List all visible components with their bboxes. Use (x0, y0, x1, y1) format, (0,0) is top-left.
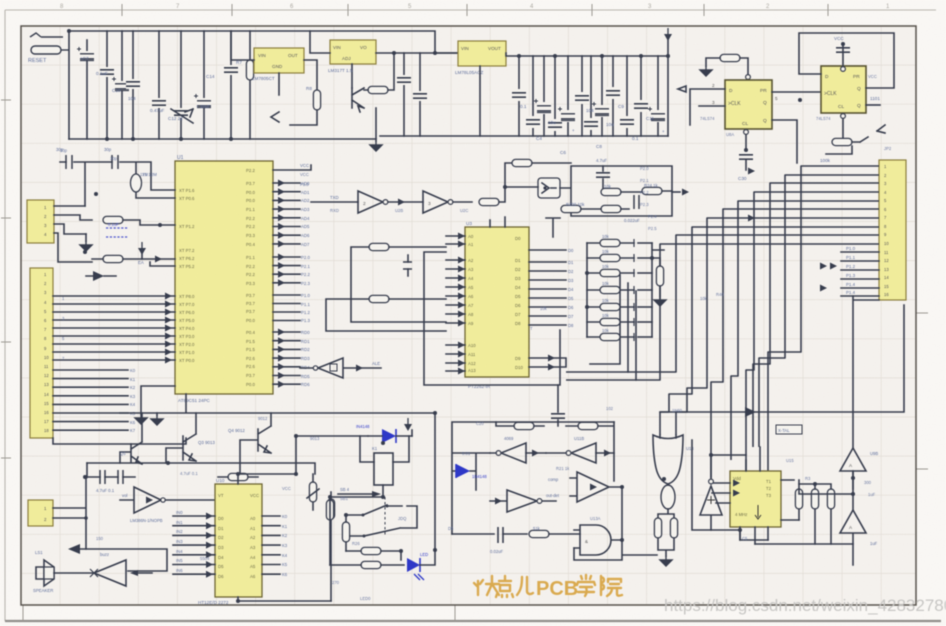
ground bottom right (660, 556, 672, 566)
wire U9 bottom stub (842, 119, 844, 139)
wire U3 left rail (424, 252, 560, 385)
resistor R53 vertical (827, 489, 834, 509)
capacitor C29 (626, 56, 628, 136)
wire vertical to amp top (853, 296, 879, 448)
wire A2 top link (852, 471, 854, 510)
ground R4 (700, 66, 712, 76)
wire connector lower stubs (841, 252, 879, 296)
arrow bus stub d (820, 285, 827, 292)
decoder U10 bottom left (215, 484, 262, 597)
connector J3 (28, 500, 53, 526)
ground ladder (654, 296, 666, 306)
inverter U11A (501, 443, 526, 463)
resistor R23 ladder (587, 289, 634, 291)
label PCB academy vector glyphs (474, 575, 622, 597)
wire and gate loop (574, 487, 657, 560)
led D2 blue (407, 558, 420, 572)
node bubble U9 PR (841, 67, 846, 72)
flip-flop U8 74LS74 (725, 80, 772, 129)
wire bus staircase (566, 166, 879, 520)
wire U10 bottom rail (238, 597, 331, 601)
capacitor C22 (543, 56, 545, 136)
arrow J2 rows (165, 293, 172, 300)
wire EA stub (150, 262, 175, 266)
wire under R50 R54 (658, 538, 674, 556)
capacitor C5 (158, 31, 160, 139)
resistor R14 (601, 188, 621, 195)
wire RC cluster frame (560, 166, 672, 216)
arrow SB stroke (338, 493, 372, 495)
wire scan noise overlay (0, 0, 1, 1)
resistor R17 (561, 205, 581, 212)
resistor R18 left of U3 (369, 243, 389, 250)
resistor R26 ladder (587, 336, 634, 338)
node flag above U3 (490, 217, 505, 227)
transistor Q3 (166, 413, 196, 463)
crystal X2 oval (661, 485, 675, 509)
node VCC flag top right of bank (664, 28, 672, 41)
arrow U10 left pins (206, 513, 213, 520)
resistor R5 under U9 (832, 138, 852, 145)
wire U10 top stub (238, 474, 296, 484)
arrow U1 right pins group2 (278, 254, 285, 261)
wire J1 stubs (54, 206, 92, 262)
capacitor C25 (581, 56, 583, 136)
inverter U2C (423, 191, 448, 213)
ground power section (375, 108, 377, 141)
arrow bus stub c (820, 263, 827, 270)
capacitor C11 (419, 53, 421, 136)
node bubble U8 PR (746, 75, 751, 80)
resistor R50 vertical (654, 518, 661, 538)
capacitor C8 (230, 31, 232, 139)
regulator U7 78L05 (458, 41, 506, 66)
capacitor C20 (518, 56, 520, 136)
capacitor C30 under U8 (739, 155, 753, 159)
wire U8 clear stub (745, 135, 747, 150)
transistor Q4 (240, 413, 271, 474)
label U1 right group1 (301, 181, 310, 247)
mcu U1 AT89C51 (175, 161, 273, 394)
capacitor C210 (640, 56, 642, 136)
resistor R12 (479, 198, 499, 205)
wire U8 to U9 (772, 91, 821, 93)
amplifier A2 up (840, 510, 866, 565)
resistor R2 (313, 90, 320, 110)
wire J2 to U1 rows (53, 296, 175, 360)
wire bus lower jogs (590, 275, 636, 380)
label texture values (60, 74, 892, 601)
wire osc bottom rail (452, 533, 494, 535)
inverter U11C (490, 490, 556, 512)
switch S1 RESET (30, 33, 69, 54)
connector J1 left (27, 200, 54, 243)
wire A1 to R51 (799, 489, 853, 494)
wire audio mid rail (87, 463, 315, 474)
opamp U12 (570, 472, 622, 502)
label cap bank (520, 104, 665, 155)
resistor R36 (361, 561, 381, 568)
transistor Q5 (120, 413, 142, 464)
capacitor C9 trimmer (171, 109, 193, 123)
wire U1 vcc stub (273, 165, 311, 170)
wire U9 output stub (866, 104, 880, 106)
label connector lower stubs (846, 246, 856, 295)
capacitor C19 (634, 195, 639, 209)
resistor R52 vertical (811, 489, 818, 509)
resistor R13 top (512, 159, 532, 166)
resistor R1 (249, 31, 251, 139)
resistor R30 vertical (656, 266, 663, 286)
resistor R37 vertical (326, 500, 333, 520)
ground J1 area (85, 234, 87, 241)
capacitor C32 pair (100, 470, 123, 484)
capacitor C23 (554, 56, 556, 136)
wire right rail cap bank (667, 56, 669, 136)
potentiometer R32 (309, 482, 316, 502)
wire audio top rail (120, 413, 435, 550)
switch SW2 (345, 506, 417, 536)
label U10 left stubs (176, 510, 183, 573)
resistor R16 (642, 187, 662, 194)
capacitor C40 stub (557, 385, 559, 426)
arrow RC out (672, 191, 680, 193)
label U3 right stubs (568, 248, 574, 328)
arrow U1 right pins group1 (278, 180, 285, 187)
capacitor C10 (403, 53, 405, 136)
wire osc frame (452, 422, 614, 534)
connector J2 left tall (30, 268, 53, 438)
label J2 lower stubs (130, 368, 136, 433)
node junction dots (67, 29, 855, 603)
resistor R15 (601, 205, 621, 212)
wire J3 stubs (53, 477, 86, 549)
resistor R24 ladder (587, 306, 634, 308)
wire U8 q2 path (772, 120, 797, 163)
node vcc tee above U3 (546, 218, 560, 237)
resistor R41 top (578, 422, 598, 429)
inverter U16 up (700, 455, 746, 530)
capacitor C27 (601, 56, 603, 136)
arrow bus stub a (748, 168, 755, 175)
resistor R3 (368, 86, 388, 93)
resistor R51 vertical (795, 489, 802, 509)
label ladder (602, 234, 610, 333)
amplifier A1 up (840, 448, 866, 489)
node bubble U9 CL (841, 114, 846, 119)
capacitor C26 (590, 56, 592, 136)
wire page bottom edge (5, 620, 941, 622)
regulator U6 LM317 (330, 40, 376, 64)
resistor R22 ladder (587, 272, 634, 274)
opamp U4A (120, 487, 215, 513)
capacitor C17 blue (106, 228, 128, 237)
node flag relay (404, 418, 412, 431)
resistor R31 (228, 473, 248, 480)
node bubble U8 CL (744, 130, 749, 135)
ground J2 (53, 438, 186, 444)
node flag ic4 top (660, 305, 904, 412)
label U1 right groups (301, 255, 310, 387)
arrow RST in (155, 256, 162, 263)
and gate U13 (574, 525, 622, 555)
or gate U14 (653, 435, 683, 484)
wire ladder right rail (652, 243, 664, 337)
resistor R20 ladder (587, 242, 634, 244)
node antenna flag right (877, 125, 885, 133)
crystal Y1 cluster (60, 162, 175, 206)
capacitor C3 (121, 31, 123, 139)
resistor R40 top (514, 422, 534, 429)
arrow U1 right pins group4 (278, 329, 285, 336)
capacitor C18 top (596, 173, 610, 177)
wire top rail (69, 31, 458, 139)
wire mid rail (394, 52, 458, 54)
ic U15 4069 bottom right (730, 471, 781, 527)
wire U3 right stubs (529, 250, 566, 325)
wire relay branch (296, 436, 368, 474)
wire U1 right pin stubs group1 (273, 183, 300, 244)
ground audio rail (156, 413, 158, 415)
speaker LS1 (36, 560, 54, 586)
diode D3 blue (456, 464, 470, 478)
capacitor C28 (612, 56, 614, 136)
resistor R33 vertical (327, 499, 334, 519)
capacitor C22 left of U3 (403, 262, 412, 269)
buffer U4B (54, 560, 152, 586)
resistor R34 vertical (342, 522, 349, 542)
wire U8 input stubs (678, 86, 725, 125)
capacitor C7 (203, 31, 205, 139)
capacitor C41 (498, 527, 503, 543)
wire power bus bottom (69, 136, 668, 139)
wire or gate inputs (660, 435, 676, 438)
transistor Q2 mixer (538, 178, 560, 198)
wire U3 bottom right pins (529, 358, 566, 367)
wire U7 out rail (480, 53, 668, 136)
ground U1 bottom (141, 386, 175, 414)
capacitor C15 plates (66, 155, 72, 169)
wire U3 left pin stubs (446, 236, 465, 371)
resistor R19 left of U3 (369, 295, 389, 302)
label RC cluster (566, 158, 658, 223)
arrow J2 top (93, 271, 104, 281)
wire U1 bottom left stub (185, 394, 187, 412)
capacitor C16 plates (112, 155, 118, 169)
wire label box (776, 425, 802, 434)
diode D1 blue (382, 429, 396, 443)
wire bottom bus right (692, 440, 853, 544)
decoder U3 PT2262 (465, 227, 529, 377)
wire bottom margin divisions (23, 605, 455, 621)
capacitor C211 (657, 56, 659, 136)
arrow U3 left pins (458, 233, 465, 240)
wire P3 link (311, 201, 358, 203)
resistor R21 ladder (587, 257, 634, 259)
wire U9 feedback loop (799, 33, 894, 88)
wire ladder left rail (586, 243, 588, 337)
wire zone labels (60, 4, 890, 10)
capacitor C6 (180, 31, 182, 139)
wire RC links (581, 191, 672, 209)
capacitor C2 (106, 31, 108, 139)
switch SW1 (345, 505, 402, 515)
capacitor C21 (532, 56, 534, 136)
arrow U15 pins (733, 480, 740, 487)
resistor R35 (361, 547, 381, 554)
wire U1 right pin stubs group2 (273, 257, 300, 283)
crystal Y1 oval (131, 174, 142, 192)
wire U5 pins (231, 31, 317, 95)
label U10 right stubs (282, 514, 288, 577)
wire border ticks (1, 4, 928, 469)
wire U6 pins (310, 31, 394, 88)
wire sound link (80, 549, 167, 571)
arrow net left (68, 544, 80, 554)
resistor R9 (103, 216, 123, 223)
capacitor C1 (86, 40, 88, 139)
arrow bus stub b (748, 215, 755, 222)
resistor R4 above U8 (720, 54, 740, 61)
wire switch rail (330, 497, 383, 565)
wire J2 lower stubs (53, 370, 128, 430)
wire U10 left stubs (173, 516, 215, 574)
relay K1 (374, 453, 393, 485)
inverter U2B (358, 191, 383, 213)
wire U1 right pin stubs group4 (273, 332, 300, 384)
node flag RST (138, 242, 146, 255)
resistor R54 vertical (670, 518, 677, 538)
capacitor C24 (567, 56, 569, 136)
connector J4 right edge (879, 160, 906, 300)
wire U1 right pin stubs group3 (273, 295, 300, 321)
capacitor C31 above U9 (842, 44, 844, 66)
resistor R42 (529, 530, 549, 537)
flip-flop U9 74LS74B (821, 66, 866, 113)
resistor R25 ladder (587, 321, 634, 323)
wire U15 pins (712, 447, 799, 544)
resistor R10 (103, 255, 123, 262)
transistor Q1 (352, 88, 364, 112)
label values top-left (80, 56, 242, 121)
inverter U11B (571, 443, 596, 463)
regulator U5 7805 (254, 48, 304, 73)
inverter U2A right of U1 (300, 358, 381, 378)
wire U10 right stubs (262, 516, 280, 574)
capacitor C4 (132, 31, 134, 139)
